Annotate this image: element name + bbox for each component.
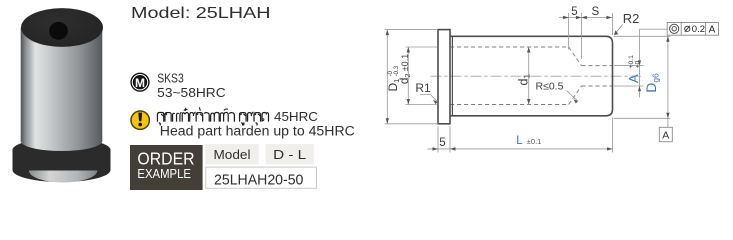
svg-text:53~58HRC: 53~58HRC (157, 85, 226, 100)
svg-text:R2: R2 (623, 11, 640, 26)
svg-text:Dg6: Dg6 (643, 73, 661, 93)
svg-text:Model: Model (214, 147, 251, 162)
svg-text:5: 5 (571, 6, 577, 18)
svg-text:S: S (591, 6, 599, 18)
svg-text:0.2: 0.2 (692, 24, 705, 35)
svg-text:A: A (626, 74, 641, 83)
svg-text:5: 5 (439, 137, 445, 149)
svg-text:Model: 25LHAH: Model: 25LHAH (131, 5, 271, 22)
svg-text:45HRC: 45HRC (274, 109, 318, 124)
svg-text:-0.3: -0.3 (393, 65, 400, 76)
svg-text:D - L: D - L (273, 147, 306, 162)
svg-text:R≤0.5: R≤0.5 (536, 81, 564, 93)
svg-text:L: L (516, 135, 523, 147)
svg-text:D1: D1 (386, 79, 401, 92)
svg-text:A: A (662, 130, 669, 142)
svg-text:+0: +0 (635, 61, 642, 69)
svg-text:M: M (135, 76, 145, 90)
svg-text:±0.1: ±0.1 (527, 137, 542, 146)
svg-text:SKS3: SKS3 (157, 71, 184, 86)
svg-text:EXAMPLE: EXAMPLE (137, 166, 191, 181)
svg-text:R1: R1 (415, 81, 431, 95)
svg-text:25LHAH20-50: 25LHAH20-50 (214, 172, 303, 189)
svg-text:Head part harden up to 45HRC: Head part harden up to 45HRC (160, 123, 355, 138)
svg-text:A: A (709, 24, 716, 35)
